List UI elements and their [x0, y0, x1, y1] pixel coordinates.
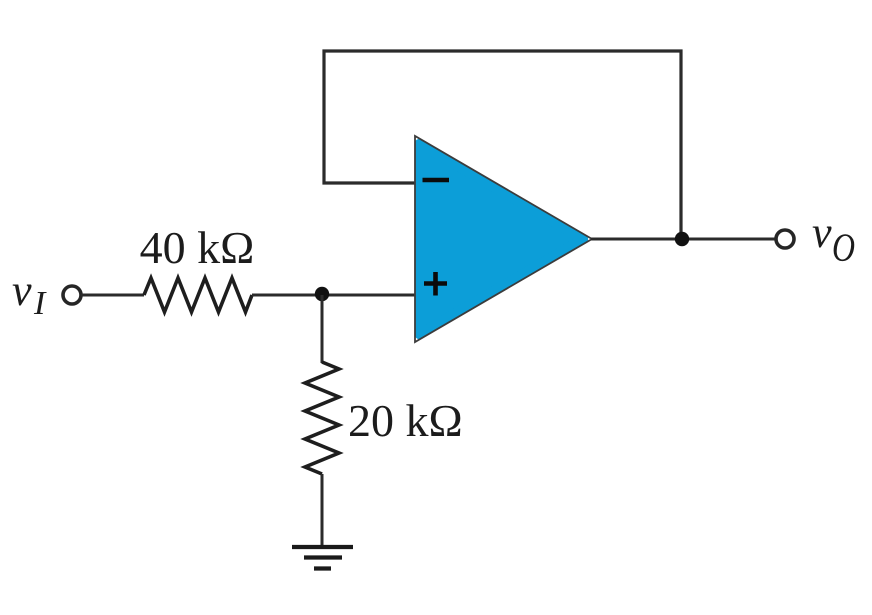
svg-text:20 kΩ: 20 kΩ [348, 395, 463, 446]
svg-text:I: I [33, 285, 47, 322]
svg-text:v: v [812, 208, 832, 257]
wire resistor R1 to op-amp plus input [252, 294, 416, 297]
op-amp U1 [415, 136, 592, 342]
wire feedback loop from output to minus input [324, 51, 681, 239]
node vO output terminal [776, 230, 794, 248]
resistor 20 kOhm [305, 362, 339, 474]
wire junction down to resistor R2 [321, 295, 324, 363]
wire resistor R2 to ground [321, 474, 324, 547]
op-amp plus input symbol [424, 272, 447, 296]
resistor 40 kOhm [144, 278, 252, 312]
ground [292, 547, 353, 569]
wire input terminal to resistor R1 [81, 294, 144, 297]
svg-text:O: O [832, 225, 855, 270]
wire op-amp output to vO terminal [591, 238, 777, 241]
node vI input terminal [63, 286, 81, 304]
svg-text:40 kΩ: 40 kΩ [140, 222, 255, 273]
junction node at R1/R2/op-amp [315, 287, 329, 301]
op-amp minus input symbol [423, 178, 450, 183]
junction node at output/feedback [675, 232, 689, 246]
svg-text:v: v [12, 266, 32, 315]
